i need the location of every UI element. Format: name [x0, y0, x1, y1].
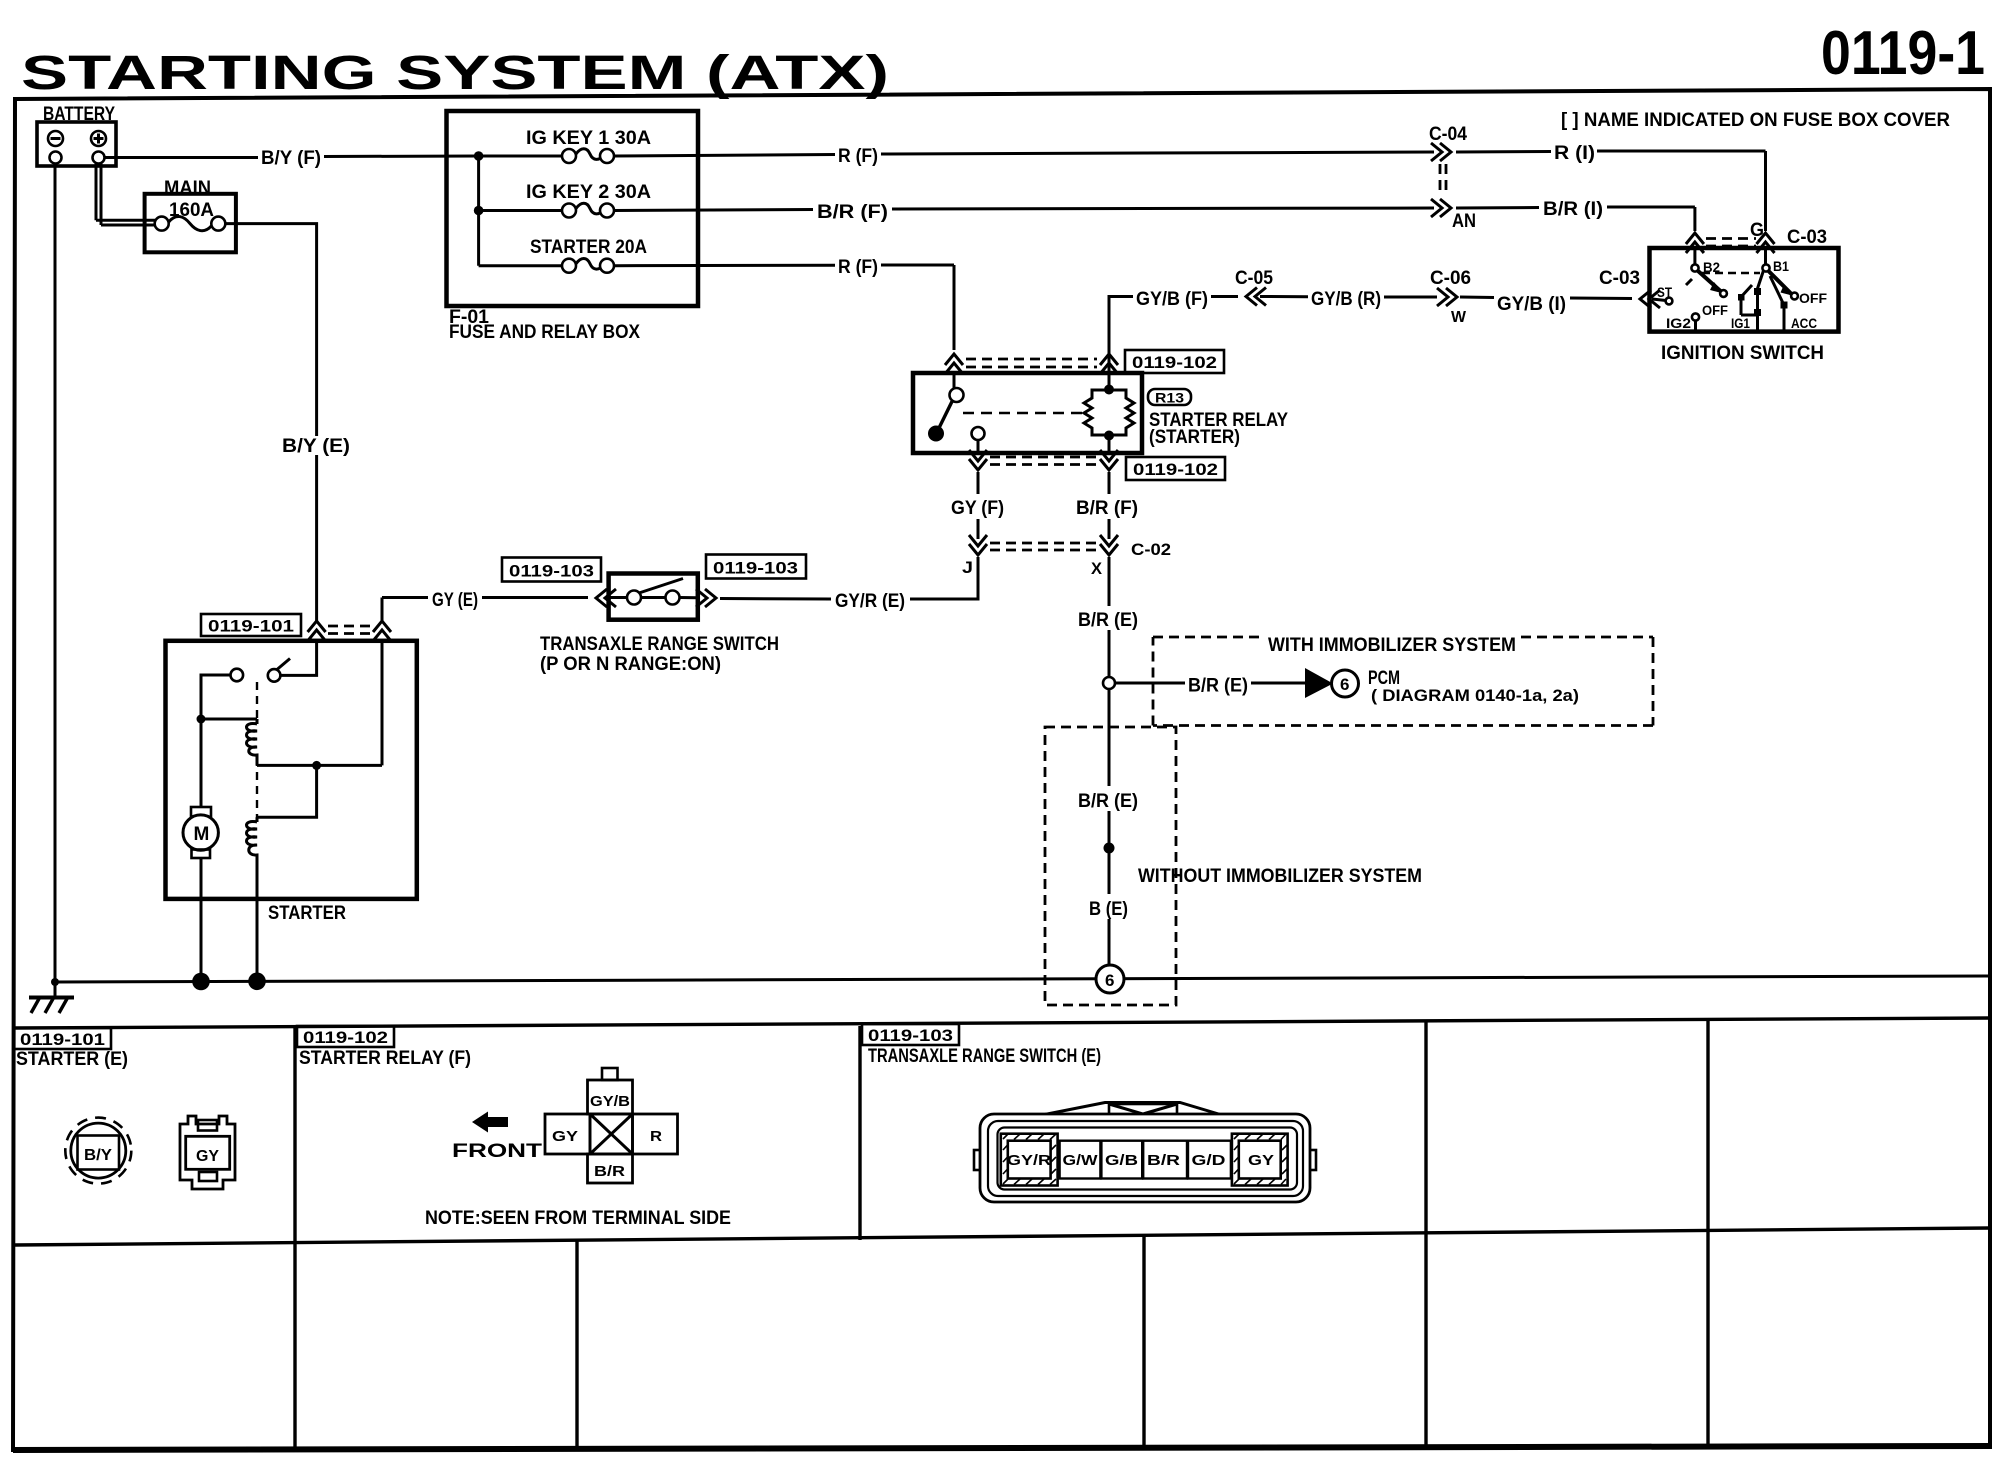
svg-text:0119-102: 0119-102 — [1132, 353, 1217, 372]
connector C-06 W — [1437, 288, 1457, 306]
svg-text:6: 6 — [1340, 675, 1349, 694]
svg-text:0119-101: 0119-101 — [20, 1030, 105, 1049]
pin G/D — [1188, 1141, 1231, 1179]
svg-text:0119-101: 0119-101 — [208, 617, 294, 636]
svg-text:B (E): B (E) — [1089, 899, 1128, 920]
fuse IG KEY 2 30A — [479, 182, 652, 218]
ground circled 6 — [1096, 965, 1124, 993]
table vertical x=1708 — [1706, 1020, 1709, 1447]
node junction row A — [474, 151, 484, 161]
svg-text:R: R — [650, 1128, 662, 1145]
pull-in coil — [247, 817, 258, 899]
label box 0119-102 bottom — [1126, 457, 1225, 480]
wire B/R(E) below C-02 — [1108, 557, 1111, 606]
wire battery minus to ground bus — [54, 164, 57, 981]
svg-text:B1: B1 — [1773, 258, 1789, 274]
IG1 branch stroke — [1741, 285, 1752, 297]
table vertical x=1144 row2 — [1142, 1236, 1145, 1448]
B1 wiper arm to OFF — [1768, 271, 1792, 295]
wire GY(F) — [977, 472, 980, 494]
starter relay terminal cross diagram — [545, 1068, 678, 1183]
svg-text:0119-103: 0119-103 — [509, 562, 594, 581]
PCM circled 6 — [1332, 670, 1359, 697]
terminal B1 — [1764, 248, 1767, 264]
svg-text:C-04: C-04 — [1429, 124, 1467, 145]
transaxle range switch — [540, 574, 779, 676]
svg-text:NOTE:SEEN FROM TERMINAL SIDE: NOTE:SEEN FROM TERMINAL SIDE — [425, 1208, 731, 1229]
ignition switch — [1650, 248, 1839, 364]
svg-text:TRANSAXLE RANGE SWITCH: TRANSAXLE RANGE SWITCH — [540, 634, 779, 655]
wire GY/R(E) down to transaxle switch — [910, 557, 978, 599]
wire R(I) to ignition switch B1 — [1456, 150, 1551, 154]
starter round connector B/Y — [65, 1118, 131, 1184]
connector C-03 chevrons above ignition switch — [1686, 233, 1704, 253]
wire B/R(F) row B to C-04 — [614, 210, 813, 211]
svg-text:B/Y (E): B/Y (E) — [282, 436, 350, 457]
svg-text:B/R (E): B/R (E) — [1078, 791, 1138, 812]
pin GY/R hatched — [1001, 1134, 1058, 1186]
starter relay R13 — [913, 373, 1142, 453]
svg-text:STARTER: STARTER — [268, 903, 346, 924]
table vertical x=295 — [293, 1026, 296, 1449]
svg-text:6: 6 — [1105, 971, 1114, 990]
svg-text:B/R (E): B/R (E) — [1078, 610, 1138, 631]
table label box 0119-101 — [14, 1028, 128, 1070]
junction node — [312, 761, 321, 770]
svg-text:M: M — [194, 824, 210, 845]
battery — [37, 104, 116, 166]
svg-text:AN: AN — [1452, 211, 1476, 232]
ground junction dots — [51, 978, 59, 986]
wire B/Y(E) MAIN fuse to starter — [225, 224, 316, 436]
svg-text:G: G — [1750, 220, 1764, 241]
connector C-04 dashed link — [1440, 164, 1446, 196]
pin GY hatched — [1232, 1134, 1288, 1186]
wire B(E) — [1108, 848, 1111, 894]
relay switch contact — [953, 373, 956, 388]
svg-text:GY (E): GY (E) — [432, 590, 478, 611]
terminal IG2 — [1692, 313, 1699, 320]
ground bus — [55, 976, 1988, 982]
wire R(F) row A to C-04 — [614, 155, 835, 157]
svg-text:TRANSAXLE RANGE SWITCH (E): TRANSAXLE RANGE SWITCH (E) — [868, 1046, 1101, 1067]
svg-text:B/Y (F): B/Y (F) — [261, 148, 321, 169]
svg-text:GY: GY — [1248, 1152, 1274, 1169]
svg-text:OFF: OFF — [1702, 302, 1728, 318]
svg-text:WITHOUT IMMOBILIZER SYSTEM: WITHOUT IMMOBILIZER SYSTEM — [1138, 866, 1422, 887]
wire to hold coil — [201, 718, 257, 721]
svg-text:B/R (I): B/R (I) — [1543, 199, 1603, 220]
relay coil — [1084, 390, 1109, 435]
svg-text:GY/B: GY/B — [590, 1093, 630, 1110]
svg-text:( DIAGRAM 0140-1a, 2a): ( DIAGRAM 0140-1a, 2a) — [1371, 686, 1579, 705]
svg-text:J: J — [962, 558, 973, 577]
fuse IG KEY 1 30A — [479, 128, 652, 163]
terminal B2 — [1693, 248, 1696, 264]
svg-text:ACC: ACC — [1791, 315, 1817, 331]
label box 0119-101 — [201, 614, 301, 636]
ACC contact — [1770, 276, 1783, 303]
label box 0119-103 left — [502, 558, 601, 582]
junction node — [197, 715, 206, 724]
connector 0119-102 chevrons below starter relay — [969, 450, 987, 470]
without immobilizer system dashed box — [1045, 727, 1422, 1005]
svg-text:STARTER (E): STARTER (E) — [16, 1049, 128, 1070]
svg-text:GY/B (R): GY/B (R) — [1311, 289, 1381, 310]
starter square connector GY — [180, 1116, 235, 1189]
svg-text:B/R (E): B/R (E) — [1188, 676, 1248, 697]
wire B/R(I) to ignition switch B2 — [1456, 206, 1539, 210]
table vertical x=912 row1 — [858, 1026, 861, 1240]
svg-text:R (F): R (F) — [838, 257, 878, 278]
svg-text:B/R (F): B/R (F) — [1076, 498, 1138, 519]
starter switch contacts — [282, 640, 317, 675]
connector 0119-102 chevrons above starter relay — [945, 354, 963, 374]
wire GY(E) turn down into starter — [381, 598, 384, 622]
solenoid plunger dashed link — [256, 682, 258, 720]
chassis ground symbol — [29, 982, 74, 1013]
svg-text:[ ] NAME INDICATED ON FUSE BOX: [ ] NAME INDICATED ON FUSE BOX COVER — [1561, 110, 1950, 131]
pin G/B — [1101, 1141, 1142, 1179]
wire coil to junction — [257, 764, 382, 767]
svg-text:IGNITION SWITCH: IGNITION SWITCH — [1661, 343, 1824, 364]
svg-text:(STARTER): (STARTER) — [1149, 427, 1240, 448]
connector C-04 row B chevron AN — [1431, 199, 1451, 217]
svg-text:G/B: G/B — [1105, 1152, 1138, 1169]
svg-text:IG KEY 2 30A: IG KEY 2 30A — [526, 182, 651, 203]
table top line — [15, 1018, 1990, 1028]
connector C-05 — [1246, 288, 1266, 306]
node junction row B — [474, 206, 484, 216]
connector C-04 row A chevron — [1431, 143, 1451, 161]
svg-text:FUSE AND RELAY BOX: FUSE AND RELAY BOX — [449, 322, 640, 343]
svg-text:MAIN: MAIN — [164, 178, 211, 199]
svg-text:GY: GY — [196, 1148, 219, 1165]
wire R(F) row C to starter relay — [614, 264, 835, 267]
table vertical x=577 row2 — [575, 1241, 578, 1449]
table row divider — [15, 1228, 1990, 1245]
wire B/R(F) — [1108, 472, 1111, 494]
svg-text:STARTING SYSTEM (ATX): STARTING SYSTEM (ATX) — [21, 47, 889, 100]
svg-text:0119-1: 0119-1 — [1821, 19, 1985, 88]
B1 arm to IG1/ACC — [1757, 271, 1764, 291]
wire starter motor to ground bus — [200, 897, 203, 982]
svg-text:C-03: C-03 — [1599, 268, 1640, 289]
transaxle connector pictogram — [974, 1103, 1316, 1203]
svg-text:C-02: C-02 — [1131, 540, 1171, 559]
svg-text:B/R (F): B/R (F) — [817, 202, 888, 223]
B2 wiper arm to OFF — [1698, 271, 1722, 292]
svg-text:G/D: G/D — [1192, 1152, 1226, 1169]
motor M — [200, 719, 203, 807]
node to PCM — [1103, 677, 1115, 689]
wire B/R(E) to PCM — [1115, 682, 1185, 685]
hold-in coil — [247, 719, 258, 765]
svg-text:0119-102: 0119-102 — [303, 1028, 388, 1047]
svg-text:IG1: IG1 — [1731, 315, 1750, 331]
svg-text:GY/B (F): GY/B (F) — [1136, 289, 1208, 310]
svg-text:0119-103: 0119-103 — [713, 559, 798, 578]
wire GY/B row: relay coil to ignition ST — [1109, 297, 1133, 389]
svg-text:GY/R: GY/R — [1007, 1152, 1051, 1169]
connector C-03 chevron at ST — [1640, 290, 1660, 308]
junction node — [1104, 843, 1115, 854]
wire from top right entry — [381, 640, 384, 765]
wire battery plus double line to MAIN fuse — [96, 164, 155, 226]
connector chevrons into starter — [308, 621, 326, 641]
svg-text:GY: GY — [552, 1128, 578, 1145]
wire GY(E) — [382, 596, 428, 599]
svg-text:B/R: B/R — [1147, 1152, 1180, 1169]
svg-text:WITH IMMOBILIZER SYSTEM: WITH IMMOBILIZER SYSTEM — [1268, 635, 1516, 656]
dashed gang link B2-B1 — [1702, 272, 1760, 274]
svg-text:G/W: G/W — [1063, 1152, 1099, 1169]
svg-text:IG2: IG2 — [1666, 315, 1691, 331]
svg-text:FRONT: FRONT — [452, 1141, 543, 1162]
pin B/R — [1143, 1141, 1187, 1179]
label box 0119-103 right — [706, 555, 806, 579]
with immobilizer system dashed box — [1153, 635, 1653, 726]
svg-text:C-03: C-03 — [1787, 227, 1827, 248]
PCM arrow — [1305, 668, 1333, 698]
FRONT arrow — [452, 1112, 543, 1163]
svg-text:IG KEY 1 30A: IG KEY 1 30A — [526, 128, 651, 149]
svg-text:OFF: OFF — [1799, 290, 1827, 306]
wire starter coil to ground bus — [256, 897, 259, 981]
label box 0119-102 top — [1125, 350, 1224, 373]
starter — [166, 640, 417, 924]
svg-text:STARTER 20A: STARTER 20A — [530, 237, 647, 258]
table label box 0119-102 — [297, 1026, 471, 1069]
svg-text:GY/R (E): GY/R (E) — [835, 591, 905, 612]
fusible link MAIN 160A — [145, 178, 236, 252]
svg-text:0119-102: 0119-102 — [1133, 460, 1218, 479]
svg-text:R (I): R (I) — [1554, 143, 1595, 164]
table label box 0119-103 — [862, 1024, 1101, 1067]
fuse and relay box F-01 — [447, 111, 699, 343]
svg-text:(P OR N RANGE:ON): (P OR N RANGE:ON) — [540, 654, 721, 675]
relay designator R13 — [1148, 389, 1191, 406]
svg-text:W: W — [1451, 309, 1467, 326]
fuse STARTER 20A — [479, 237, 648, 273]
svg-text:X: X — [1091, 559, 1103, 578]
svg-text:STARTER RELAY (F): STARTER RELAY (F) — [299, 1048, 471, 1069]
svg-text:C-05: C-05 — [1235, 268, 1273, 289]
svg-text:B/R: B/R — [594, 1163, 625, 1180]
pin G/W — [1060, 1141, 1101, 1179]
relay plunger dashed link — [963, 412, 1082, 415]
svg-text:GY (F): GY (F) — [951, 498, 1004, 519]
table vertical x=1426 — [1424, 1021, 1427, 1448]
svg-text:R (F): R (F) — [838, 146, 878, 167]
connector C-02 chevrons — [969, 535, 987, 555]
svg-text:GY/B (I): GY/B (I) — [1497, 294, 1566, 315]
svg-text:B/Y: B/Y — [84, 1147, 112, 1164]
svg-text:C-06: C-06 — [1430, 268, 1471, 289]
fuse box internal bus — [477, 156, 480, 266]
wire B/R(E) lower — [1108, 689, 1111, 786]
svg-text:0119-103: 0119-103 — [868, 1026, 953, 1045]
wire B/Y(F) battery to fuse box — [105, 156, 259, 159]
svg-text:R13: R13 — [1155, 390, 1184, 406]
